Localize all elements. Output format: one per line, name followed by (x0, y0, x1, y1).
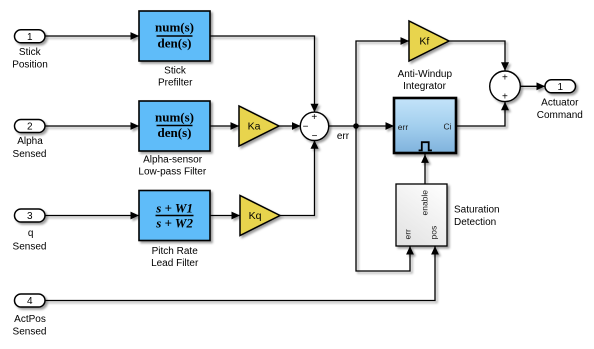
svg-text:num(s): num(s) (155, 110, 194, 125)
svg-text:Lead Filter: Lead Filter (151, 258, 199, 269)
svg-text:−: − (312, 131, 318, 142)
svg-text:err: err (337, 131, 350, 142)
svg-text:1: 1 (557, 82, 563, 93)
svg-text:s + W1: s + W1 (155, 201, 193, 216)
svg-text:+: + (502, 92, 508, 103)
svg-text:Kf: Kf (419, 35, 429, 47)
svg-text:s + W2: s + W2 (155, 215, 193, 230)
svg-text:Alpha: Alpha (17, 136, 43, 147)
svg-text:Alpha-sensor: Alpha-sensor (143, 155, 203, 166)
svg-text:Stick: Stick (164, 66, 187, 77)
svg-text:Actuator: Actuator (541, 98, 579, 109)
svg-text:num(s): num(s) (155, 20, 194, 35)
svg-text:Command: Command (537, 110, 583, 121)
svg-text:Sensed: Sensed (13, 327, 47, 338)
svg-text:Sensed: Sensed (13, 149, 47, 160)
svg-text:Prefilter: Prefilter (158, 78, 193, 89)
svg-text:err: err (403, 229, 413, 240)
svg-text:ActPos: ActPos (14, 314, 46, 325)
svg-text:3: 3 (27, 211, 33, 222)
svg-text:Kq: Kq (249, 210, 262, 222)
svg-text:+: + (311, 112, 317, 123)
svg-text:Saturation: Saturation (454, 205, 500, 216)
svg-text:−: − (303, 122, 309, 133)
svg-text:+: + (502, 73, 508, 84)
svg-text:2: 2 (27, 122, 33, 133)
svg-text:1: 1 (27, 32, 33, 43)
svg-text:q: q (28, 228, 34, 239)
svg-text:Integrator: Integrator (403, 81, 446, 92)
svg-text:Ka: Ka (248, 120, 261, 132)
svg-text:4: 4 (27, 296, 33, 307)
svg-text:Pitch Rate: Pitch Rate (152, 246, 199, 257)
svg-text:den(s): den(s) (158, 35, 192, 50)
svg-text:Low-pass Filter: Low-pass Filter (138, 167, 206, 178)
svg-text:enable: enable (420, 190, 430, 216)
svg-text:Position: Position (12, 60, 48, 71)
svg-text:Anti-Windup: Anti-Windup (398, 69, 453, 80)
svg-text:err: err (398, 122, 409, 132)
svg-text:Sensed: Sensed (13, 242, 47, 253)
svg-text:den(s): den(s) (158, 125, 192, 140)
svg-text:Detection: Detection (454, 217, 496, 228)
svg-text:Stick: Stick (19, 47, 42, 58)
svg-text:pos: pos (429, 226, 439, 240)
svg-text:Ci: Ci (443, 122, 451, 132)
